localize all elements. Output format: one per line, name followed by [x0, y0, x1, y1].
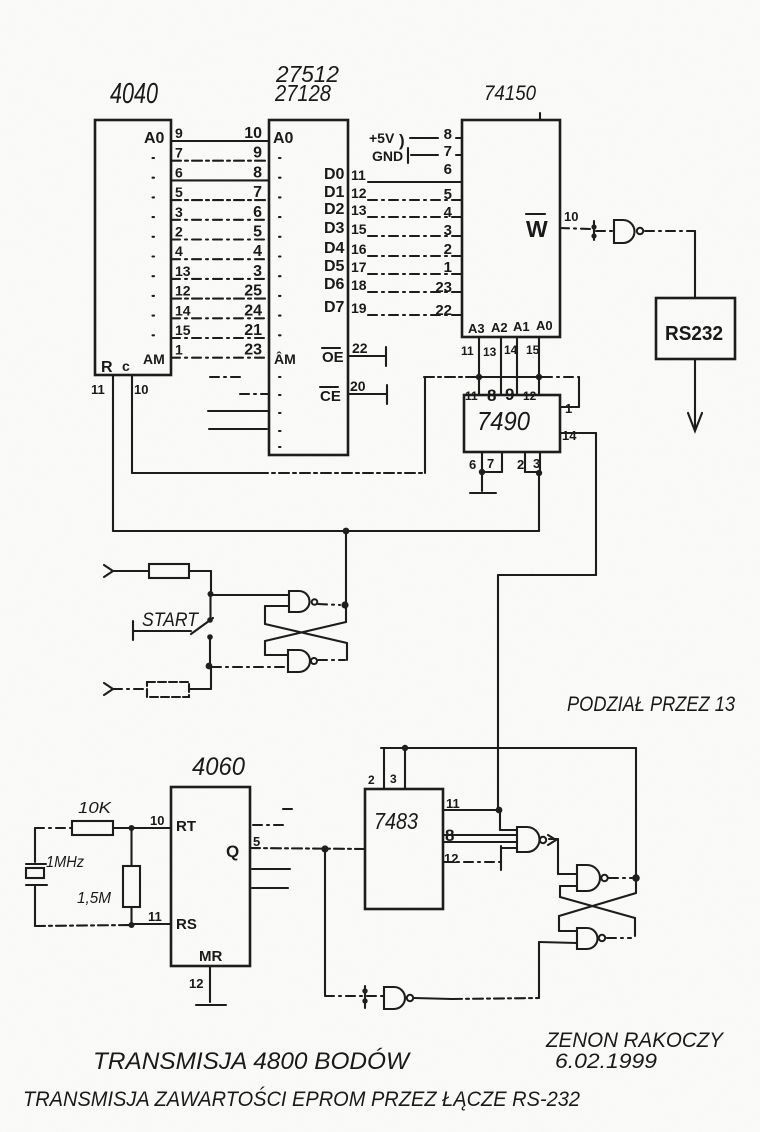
svg-text:4060: 4060 — [192, 753, 245, 781]
G4 output bubble — [407, 995, 413, 1001]
wire address bus row 4 (4040 pin 3 to EPROM pin 6) — [171, 204, 269, 221]
wire Q to G4 — [325, 995, 364, 997]
NAND gate G1 body — [614, 220, 635, 243]
svg-text:10: 10 — [150, 813, 164, 828]
pin label W of U3 — [526, 214, 548, 242]
wire address bus row 5 (4040 pin 2 to EPROM pin 5) — [171, 224, 269, 241]
wire G1 output to RS232 — [645, 230, 695, 232]
svg-text:12: 12 — [351, 185, 367, 201]
wire down into RS232 — [694, 231, 696, 298]
crystal X1 1MHz — [26, 828, 47, 926]
svg-text:11: 11 — [465, 389, 478, 403]
svg-text:2: 2 — [175, 224, 183, 240]
svg-text:5: 5 — [175, 184, 183, 200]
wire bottom crystal row — [35, 925, 132, 926]
svg-text:A0: A0 — [536, 318, 553, 333]
wire G1 input bar to gate — [596, 230, 613, 232]
switch contact dots — [207, 617, 213, 640]
svg-text:3: 3 — [253, 263, 262, 280]
junction dot ground — [479, 469, 485, 475]
svg-text:1MHz: 1MHz — [46, 854, 84, 871]
svg-text:27128: 27128 — [274, 80, 331, 106]
svg-text:6: 6 — [469, 457, 476, 472]
wire RS pin — [132, 923, 171, 925]
wire G2 output — [318, 604, 340, 605]
wire address bus row 7 (4040 pin 13 to EPROM pin 3) — [171, 263, 269, 280]
wire R2 to switch contact — [189, 666, 211, 689]
svg-text:ZENON RAKOCZY: ZENON RAKOCZY — [545, 1029, 725, 1052]
svg-text:7483: 7483 — [374, 808, 418, 834]
wire data bus D7 (EPROM pin 19 to 74150) — [324, 299, 461, 316]
G5 output bubble — [540, 837, 546, 843]
wire right feedback vertical x636 — [635, 748, 637, 893]
svg-text:6.02.1999: 6.02.1999 — [555, 1050, 657, 1073]
svg-text:AM: AM — [143, 351, 165, 367]
wire Q tap down — [324, 849, 326, 995]
svg-text:7: 7 — [253, 184, 262, 201]
pin tick top of U3 — [539, 113, 541, 120]
svg-text:1: 1 — [444, 259, 452, 276]
wire U4 pin14 down-right path — [498, 433, 596, 810]
svg-text:10: 10 — [134, 382, 148, 397]
wire cross-couple G3out to G2 input — [265, 606, 347, 660]
wire address bus row 3 (4040 pin 5 to EPROM pin 7) — [171, 184, 269, 201]
svg-text:D6: D6 — [324, 276, 345, 293]
junction dot pins2-3 — [536, 470, 542, 476]
junction dot G2 output node — [341, 601, 348, 608]
svg-text:19: 19 — [351, 300, 367, 316]
wire address bus row 6 (4040 pin 4 to EPROM pin 4) — [171, 243, 269, 260]
svg-text:8: 8 — [444, 126, 452, 143]
NAND gate G4 tied-input bar — [364, 986, 366, 1008]
junction dot y748 — [402, 745, 408, 751]
ground symbol under U5 — [196, 1004, 226, 1006]
wire G5 output — [549, 839, 577, 874]
svg-text:3: 3 — [390, 772, 397, 786]
svg-text:21: 21 — [244, 322, 262, 339]
wire pins2-3 down to feedback row — [538, 473, 540, 531]
NAND gate G4 body — [384, 987, 405, 1009]
wire cross-couple G2out to G3 input — [265, 607, 346, 655]
svg-text:15: 15 — [526, 343, 540, 357]
wire U3 A0 select vertical — [538, 337, 540, 395]
svg-text:23: 23 — [244, 342, 262, 359]
svg-text:9: 9 — [175, 125, 183, 141]
svg-text:2: 2 — [444, 241, 452, 258]
wire R1 to switch node — [189, 571, 211, 594]
U4 top pin numbers 11 8 9 12 — [465, 385, 537, 405]
svg-text:20: 20 — [350, 378, 366, 394]
wire to NAND G3 input — [212, 666, 287, 668]
svg-text:12: 12 — [175, 283, 191, 299]
U4 bottom pins 6 7 — [469, 452, 502, 472]
svg-text:RS: RS — [176, 916, 197, 933]
pin label CE of U2 — [320, 387, 341, 405]
resistor R1 — [149, 564, 189, 578]
wire G6 output to x636 — [609, 877, 632, 879]
svg-text:7: 7 — [444, 143, 452, 160]
NAND gate G5 body — [517, 827, 540, 852]
svg-text:13: 13 — [351, 202, 367, 218]
svg-text:15: 15 — [351, 221, 367, 237]
svg-text:Q: Q — [226, 842, 239, 861]
svg-text:25: 25 — [244, 283, 262, 300]
svg-text:D4: D4 — [324, 240, 345, 257]
wire 4040 pin11 stub down — [112, 375, 114, 531]
wire GND to 74150 pin 7 — [411, 154, 461, 156]
svg-text:24: 24 — [244, 302, 262, 319]
pin 1 of U4 — [560, 377, 579, 416]
wire data bus D3 (EPROM pin 15 to 74150) — [324, 220, 461, 237]
pin dots column U2 — [279, 158, 281, 335]
svg-text:10: 10 — [244, 125, 262, 142]
wire G7 output stub — [607, 937, 631, 939]
wire address bus row 2 (4040 pin 6 to EPROM pin 8) — [171, 164, 269, 181]
wire pin11 node to G5 — [500, 810, 516, 830]
wire top feedback row y748 — [381, 747, 636, 749]
NAND gate G2 body — [289, 591, 310, 612]
IC U2 EPROM 27512/27128 body — [269, 120, 348, 455]
wire row y473 horizontal from 4040 pin10 — [132, 472, 258, 474]
svg-text:+5V: +5V — [369, 130, 395, 146]
svg-text:12: 12 — [523, 389, 537, 403]
svg-text:ÂM: ÂM — [274, 350, 296, 367]
G5 output arrow mark — [548, 835, 556, 845]
scan noise overlay — [0, 0, 1, 1]
wire latch output vertical x346 — [345, 531, 347, 605]
wire data bus D6 (EPROM pin 18 to 74150) — [324, 276, 461, 293]
svg-text:14: 14 — [504, 343, 518, 357]
switch pole wire — [133, 630, 191, 632]
svg-text:12: 12 — [189, 976, 203, 991]
svg-text:A0: A0 — [273, 130, 294, 147]
wire address bus row 11 (4040 pin 1 to EPROM pin 23) — [171, 342, 269, 359]
svg-text:TRANSMISJA 4800 BODÓW: TRANSMISJA 4800 BODÓW — [93, 1048, 411, 1075]
wire U3 A3 select vertical — [478, 337, 480, 395]
G2 output bubble — [312, 599, 318, 605]
wire address bus row 0 (4040 pin 9 to EPROM pin 10) — [171, 125, 269, 142]
svg-text:12: 12 — [444, 851, 458, 866]
svg-text:4: 4 — [175, 243, 183, 259]
wire cross-couple G6out to G7 input — [559, 893, 636, 931]
wire chevron to resistor R2 — [113, 688, 147, 690]
junction dot A0/row377 — [536, 374, 542, 380]
svg-text:GND: GND — [372, 148, 403, 164]
svg-text:6: 6 — [444, 161, 452, 178]
svg-text:2: 2 — [368, 773, 375, 787]
junction dot A3/row377 — [476, 374, 482, 380]
wire data bus D1 (EPROM pin 12 to 74150) — [324, 184, 461, 201]
wire address bus row 8 (4040 pin 12 to EPROM pin 25) — [171, 283, 269, 300]
pin 11 of U6 — [443, 796, 499, 811]
resistor R3 10K body — [72, 821, 113, 835]
svg-text:13: 13 — [483, 345, 497, 359]
wire address bus row 10 (4040 pin 15 to EPROM pin 21) — [171, 322, 269, 339]
junction dot RT node — [129, 825, 135, 831]
svg-text:7490: 7490 — [477, 406, 530, 436]
IC U6 7483 body — [365, 789, 443, 909]
svg-text:4: 4 — [444, 204, 453, 221]
wire unused address stub 4 — [209, 428, 267, 430]
svg-text:16: 16 — [351, 241, 367, 257]
svg-text:14: 14 — [175, 302, 191, 318]
svg-text:5: 5 — [253, 224, 262, 241]
wire address bus row 1 (4040 pin 7 to EPROM pin 9) — [171, 145, 269, 162]
switch lever — [191, 618, 213, 634]
wire crystal to R3 — [35, 827, 72, 829]
U3 bottom select labels A3 A2 A1 A0 — [468, 318, 553, 336]
svg-text:1,5M: 1,5M — [77, 890, 112, 907]
wire row y377 horizontal — [424, 376, 579, 378]
svg-text:PODZIAŁ PRZEZ 13: PODZIAŁ PRZEZ 13 — [567, 693, 735, 716]
wire +5V to 74150 pin 8 — [410, 137, 461, 139]
wire MR stub down — [209, 966, 211, 1002]
junction dot G6 output node — [632, 874, 640, 882]
wire unused address stub 2 — [240, 393, 268, 395]
NAND gate G3 body — [288, 650, 310, 672]
IC U4 7490 body — [464, 395, 560, 452]
svg-text:MR: MR — [199, 948, 222, 965]
svg-text:11: 11 — [446, 796, 460, 811]
svg-text:D0: D0 — [324, 166, 345, 183]
svg-text:D5: D5 — [324, 258, 345, 275]
svg-text:7: 7 — [487, 456, 494, 471]
wire G4 output to latch — [414, 998, 452, 999]
wire Q output — [250, 848, 365, 849]
wire feedback row y531 — [113, 530, 539, 532]
svg-text:11: 11 — [91, 382, 105, 397]
wire U3 pin 10 to inverter G1 — [560, 228, 590, 229]
svg-text:17: 17 — [351, 259, 367, 275]
wire G3 output stub — [318, 659, 345, 661]
svg-text:A1: A1 — [513, 319, 530, 334]
svg-text:5: 5 — [253, 834, 260, 849]
pin 22 wire and terminator of U2 OE — [348, 340, 386, 366]
svg-text:23: 23 — [435, 279, 452, 296]
svg-text:1: 1 — [175, 342, 183, 358]
svg-text:9: 9 — [253, 145, 262, 162]
inverter G1 tied-input bar — [593, 221, 595, 240]
resistor R2 — [147, 682, 189, 697]
svg-text:18: 18 — [351, 277, 367, 293]
wire data bus D5 (EPROM pin 17 to 74150) — [324, 258, 461, 275]
junction dots G4 inputs — [362, 988, 367, 1003]
+5V supply label — [369, 130, 405, 150]
pin 20 wire and terminator of U2 CE — [348, 378, 387, 404]
resistor R4 1.5M body — [123, 828, 140, 925]
wire chevron to resistor R1 — [112, 570, 149, 572]
pin 12 of U6 — [443, 846, 517, 870]
svg-text:1: 1 — [565, 401, 572, 416]
svg-text:9: 9 — [505, 385, 514, 404]
wire data bus D0 (EPROM pin 11 to 74150) — [324, 166, 461, 183]
svg-text:2: 2 — [517, 457, 524, 472]
wire R3 to RT node — [113, 827, 132, 829]
wire to NAND G2 input — [211, 594, 288, 596]
svg-text:11: 11 — [148, 909, 162, 924]
svg-text:A3: A3 — [468, 321, 485, 336]
junction dots G1 inputs — [591, 224, 596, 229]
wire U3 A1 select vertical — [516, 337, 518, 395]
START input chevron top — [104, 565, 113, 577]
wire latch input rise — [539, 942, 577, 998]
U3 left pin numbers — [435, 126, 452, 319]
svg-text:R: R — [101, 359, 113, 376]
junction dot Q tap — [321, 845, 328, 852]
svg-text:START: START — [142, 610, 199, 631]
svg-text:3: 3 — [175, 204, 183, 220]
wire unused address stub 1 — [210, 376, 245, 378]
svg-text:CE: CE — [320, 388, 341, 405]
svg-text:7: 7 — [175, 145, 183, 161]
svg-text:13: 13 — [175, 263, 191, 279]
pin dots column U1 — [153, 158, 155, 335]
svg-text:c: c — [122, 358, 130, 374]
junction dot RS node — [129, 922, 135, 928]
IC U5 4060 body — [171, 787, 250, 966]
G6 output bubble — [601, 875, 607, 881]
svg-text:A0: A0 — [144, 130, 165, 147]
wire switch contact verticals — [209, 594, 212, 666]
stray stub lines right of U5 — [252, 809, 297, 888]
svg-text:D1: D1 — [324, 184, 345, 201]
ground symbol under U4 — [470, 472, 496, 493]
wire U3 A2 select vertical — [500, 337, 502, 395]
G7 output bubble — [599, 935, 605, 941]
wire RS232 output arrow — [688, 359, 702, 431]
U4 bottom pins 2 3 — [517, 452, 540, 472]
junction dot U6 pin11 node — [496, 807, 503, 814]
svg-text:8: 8 — [253, 164, 262, 181]
G1 output bubble — [637, 228, 643, 234]
svg-text:D3: D3 — [324, 220, 345, 237]
IC U1 4040 counter body — [95, 120, 171, 375]
pin 14 of U4 — [560, 428, 596, 443]
svg-text:74150: 74150 — [484, 82, 536, 105]
wire unused address stub 3 — [208, 410, 268, 412]
wire data bus D4 (EPROM pin 16 to 74150) — [324, 240, 461, 257]
GND supply label — [372, 148, 408, 164]
svg-text:4: 4 — [253, 243, 262, 260]
svg-text:5: 5 — [444, 186, 452, 203]
wire cross-couple G7out to G6 input — [560, 886, 635, 936]
svg-text:8: 8 — [487, 386, 496, 405]
junction dot latch reset input — [206, 663, 213, 670]
svg-text:22: 22 — [352, 340, 368, 356]
pin dots column U2 lower — [279, 377, 281, 447]
svg-text:11: 11 — [351, 167, 366, 183]
svg-text:A2: A2 — [491, 320, 508, 335]
junction dot latch set input — [208, 591, 214, 597]
junction dot start-latch tap — [343, 528, 350, 535]
RS232 box — [656, 298, 735, 359]
svg-text:4040: 4040 — [110, 78, 158, 110]
svg-text:6: 6 — [175, 164, 183, 180]
svg-text:10K: 10K — [78, 800, 113, 817]
svg-text:11: 11 — [461, 344, 474, 358]
svg-text:RT: RT — [176, 818, 196, 835]
NAND gate G7 body — [577, 928, 598, 949]
NAND gate G6 body — [577, 865, 600, 891]
svg-text:TRANSMISJA ZAWARTOŚCI EPROM PR: TRANSMISJA ZAWARTOŚCI EPROM PRZEZ ŁĄCZE … — [23, 1087, 580, 1111]
svg-text:W: W — [526, 216, 548, 242]
wire G4 bar to body — [367, 995, 383, 997]
svg-text:D7: D7 — [324, 299, 345, 316]
svg-text:RS232: RS232 — [665, 323, 723, 345]
svg-text:10: 10 — [564, 209, 578, 224]
svg-text:22: 22 — [435, 302, 452, 319]
G3 output bubble — [311, 658, 317, 664]
svg-text:6: 6 — [253, 204, 262, 221]
IC U3 74150 body — [462, 120, 560, 337]
wire data bus D2 (EPROM pin 13 to 74150) — [324, 201, 461, 218]
START input chevron bottom — [104, 683, 113, 695]
U3 select pin numbers 11 13 14 15 — [461, 343, 540, 359]
pin label OE of U2 — [322, 348, 344, 366]
svg-text:15: 15 — [175, 322, 191, 338]
wire vertical x425 — [424, 377, 426, 473]
wire 4040 pin10 stub down — [131, 375, 133, 473]
svg-text:14: 14 — [562, 428, 577, 443]
wire RT pin — [132, 827, 171, 829]
svg-text:3: 3 — [444, 222, 452, 239]
svg-text:D2: D2 — [324, 201, 345, 218]
U6 top pin stubs 2 3 — [368, 748, 405, 789]
switch pole bar — [132, 621, 134, 640]
wire address bus row 9 (4040 pin 14 to EPROM pin 24) — [171, 302, 269, 319]
pin 8 of U6 double wire — [443, 826, 516, 845]
svg-text:OE: OE — [322, 349, 344, 366]
